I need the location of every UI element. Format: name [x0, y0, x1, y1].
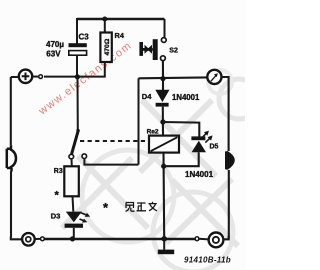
capacitor C3 top plate — [69, 43, 87, 47]
svg-text:C3: C3 — [79, 33, 90, 42]
plus sign inside + terminal — [22, 73, 30, 81]
relay Re2 diagonal — [151, 137, 178, 151]
terminal: bottom-left output circle — [22, 233, 35, 246]
wire: R4 top lead — [104, 19, 106, 33]
node junction C3/switch feed — [75, 74, 80, 79]
ground symbol bar — [158, 250, 174, 255]
pushbutton S2 bridge bar — [153, 39, 158, 60]
wire: D5 branch top run — [163, 122, 199, 137]
wire: arrow terminal right stub and right rail down — [221, 77, 229, 151]
svg-text:91410B-11b: 91410B-11b — [184, 256, 231, 265]
arrow inside terminal — [211, 76, 216, 82]
wire: left contact to R3 top — [71, 159, 73, 167]
LED D3 cathode bar — [65, 224, 83, 228]
wire: R4 bottom lead and run to + input — [44, 62, 105, 77]
wire: right horizontal bus — [139, 76, 208, 79]
watermark gray X stroke 5 — [166, 179, 232, 243]
svg-text:470µ: 470µ — [46, 40, 64, 49]
pushbutton S2 cap bar — [139, 42, 143, 56]
note 见正文 glyph 3 (文) — [149, 202, 158, 211]
LED D3 triangle — [66, 212, 82, 223]
watermark gray ring small top-right — [208, 70, 232, 94]
D5 emission arrow 2 — [205, 138, 210, 143]
wire: left rail corner into bottom-left terminal — [11, 237, 22, 240]
switch lever pivot blob — [76, 129, 79, 132]
wire: top horizontal bus — [77, 18, 165, 20]
node junction ground — [161, 236, 167, 242]
wire: D4 top lead — [162, 79, 164, 90]
wire: small circle to bottom-right terminal — [199, 238, 209, 241]
capacitor C3 bottom plate — [69, 51, 87, 56]
watermark gray ring bottom-right — [153, 192, 233, 270]
wire: left rail vertical upper — [10, 77, 12, 145]
node junction S2/D4 — [160, 76, 165, 81]
wire: S2 bottom lead — [162, 61, 164, 79]
wire: + terminal to small circle — [32, 76, 38, 78]
wire: D3 bottom lead — [73, 228, 75, 239]
relay coil Re2 box — [149, 136, 179, 153]
watermark gray X stroke 4 — [78, 156, 148, 228]
wire: + terminal left stub — [11, 76, 19, 78]
svg-text:R4: R4 — [115, 31, 125, 40]
svg-text:Re2: Re2 — [147, 129, 159, 136]
terminal: + input circle — [19, 70, 32, 83]
small breakpoint circle right of + terminal — [39, 75, 43, 79]
svg-text:R3: R3 — [54, 168, 63, 175]
wire: bottom-left terminal to small circle — [35, 238, 41, 240]
node junction D5 return — [161, 164, 166, 169]
wire: C3 bottom lead — [76, 56, 78, 78]
connector D-symbol on left rail — [7, 145, 16, 171]
resistor R4 body — [100, 33, 111, 63]
wire: S2 top lead from bus — [164, 19, 166, 37]
small breakpoint circle left of bottom-right terminal — [195, 237, 199, 241]
svg-text:S2: S2 — [169, 48, 178, 55]
svg-text:D4: D4 — [142, 92, 152, 101]
switch contact right circle — [82, 154, 87, 159]
pushbutton S2 bowtie marks — [145, 45, 150, 54]
node junction D5 branch — [160, 119, 165, 124]
arrow marker on right rail — [225, 151, 235, 170]
dashed mechanical link relay to switch — [80, 140, 149, 142]
diode D4 cathode bar — [156, 103, 169, 107]
pushbutton S2 bottom contact — [161, 56, 166, 61]
switch contact left circle — [69, 154, 74, 159]
svg-text:D3: D3 — [51, 212, 61, 221]
ground symbol stub — [163, 239, 165, 250]
wire: feed down to switch lever — [77, 77, 79, 131]
inner circle of bottom-left terminal — [26, 237, 31, 242]
watermark gray X stroke 1 — [140, 100, 212, 172]
svg-text:D5: D5 — [210, 144, 219, 151]
svg-text:*: * — [55, 190, 60, 202]
svg-text:1N4001: 1N4001 — [172, 93, 200, 102]
wire: bottom bus — [44, 238, 195, 241]
watermark gray X stroke 2 — [142, 100, 216, 176]
wire: relay bottom lead down to ground bus — [162, 153, 165, 239]
pushbutton S2 stem — [143, 48, 153, 51]
node junction D3 bottom — [70, 236, 75, 241]
note 见正文 glyph 1 (见) — [126, 203, 135, 212]
wire: right contact down and over to relay-side rail — [84, 158, 138, 164]
note 见正文 glyph 2 (正) — [137, 203, 147, 211]
watermark gray ring bottom-center — [82, 150, 174, 242]
svg-text:470Ω: 470Ω — [104, 38, 111, 55]
D5 emission arrow 1 — [201, 133, 207, 138]
node junction at R4 top — [102, 17, 107, 22]
wire: rail from right horizontal bus down — [138, 78, 140, 164]
inner circle of bottom-right terminal — [213, 237, 219, 243]
wire: bottom-right terminal to right rail corner — [223, 236, 228, 239]
resistor R3 body — [64, 166, 79, 196]
wire: left rail vertical lower — [10, 172, 12, 238]
relay switch lever — [72, 130, 79, 154]
terminal: circle with arrow (to further circuitry) — [207, 70, 221, 84]
small breakpoint circle right of bottom-left terminal — [41, 237, 45, 241]
terminal: bottom-right output circle — [209, 233, 224, 248]
watermark gray X stroke 3 — [62, 158, 132, 228]
diode D5 triangle — [192, 141, 206, 152]
svg-text:1N4001: 1N4001 — [185, 170, 214, 179]
pushbutton S2 top contact — [161, 38, 166, 43]
watermark gray X stroke 6 — [172, 180, 238, 246]
diode D4 triangle — [155, 90, 169, 102]
wire: D5 bottom lead and return run — [164, 152, 199, 166]
LED D3 emission arrow 2 — [80, 219, 85, 221]
wire: R3 bottom lead — [72, 196, 75, 211]
diode D5 cathode bar — [191, 136, 205, 140]
LED D3 emission arrow 1 — [81, 213, 88, 216]
svg-text:63V: 63V — [46, 49, 61, 58]
wire: right rail below arrow — [228, 170, 230, 239]
wire: D4 bottom lead to relay — [162, 107, 164, 136]
watermark gray ring top-right — [219, 79, 259, 119]
wire: C3 top lead — [76, 18, 78, 44]
